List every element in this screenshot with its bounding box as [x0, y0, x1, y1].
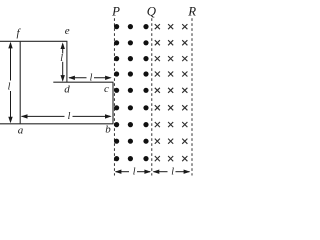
dimension arrow d-c l	[68, 76, 111, 80]
wire e-d	[66, 41, 68, 82]
svg-text:l: l	[133, 167, 136, 178]
wire bottom rail through a to b	[0, 123, 114, 125]
dashed field boundary line R	[191, 18, 193, 175]
dimension arrow left height l (f-a)	[8, 42, 12, 124]
svg-text:d: d	[64, 84, 70, 96]
svg-text:Q: Q	[147, 4, 156, 18]
svg-text:a: a	[18, 125, 24, 137]
svg-text:l: l	[171, 167, 174, 178]
dimension arrow region P width l	[115, 170, 151, 174]
svg-text:P: P	[111, 4, 120, 18]
wire top rail through f to e	[0, 40, 67, 42]
svg-text:b: b	[105, 123, 111, 135]
svg-text:e: e	[65, 25, 70, 37]
svg-text:l: l	[68, 111, 71, 122]
svg-text:l: l	[90, 73, 93, 84]
wire d-c	[53, 81, 113, 83]
svg-text:c: c	[104, 83, 109, 95]
dashed field boundary line Q	[151, 18, 153, 175]
dimension arrow region Q width l	[153, 170, 191, 174]
dashed field boundary line P	[113, 18, 115, 175]
field crosses region Q-R (B into page)	[155, 24, 188, 161]
dimension arrow e-d l	[61, 42, 65, 81]
wire left side f-a	[19, 41, 21, 124]
svg-text:l: l	[60, 53, 63, 64]
svg-text:l: l	[8, 81, 11, 92]
dimension arrow a-b l	[21, 114, 112, 118]
wire c-b	[112, 82, 114, 124]
svg-text:R: R	[187, 4, 196, 18]
field dots region P-Q (B out of page)	[114, 24, 149, 161]
